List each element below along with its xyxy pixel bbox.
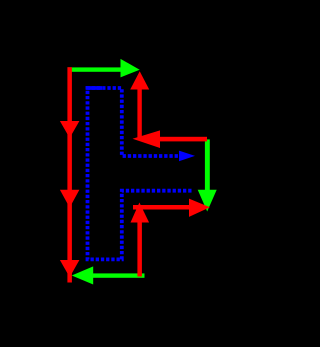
- red arrow upper-right (upward): [130, 71, 149, 139]
- green arrow right (downward): [198, 139, 217, 211]
- blue arrowhead on dotted contour: [179, 151, 195, 162]
- red arrow middle (right-to-left): [133, 130, 208, 148]
- red arrow bottom-middle (upward): [131, 203, 150, 277]
- red arrow lower (left-to-right, over green head): [133, 199, 210, 217]
- green arrow top (left-to-right): [68, 59, 140, 78]
- red line left with three down arrowheads: [60, 67, 80, 282]
- blue dotted contour (turnstile outline): [88, 88, 192, 259]
- green arrow bottom (right-to-left): [72, 266, 145, 284]
- blue solid run at top-left of contour: [86, 86, 102, 90]
